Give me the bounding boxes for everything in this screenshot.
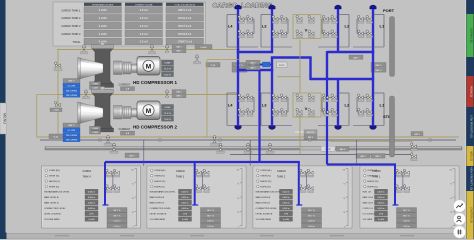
svg-text:CORRECTED LEVEL: CORRECTED LEVEL [150, 208, 172, 210]
manifold cluster L1 [357, 18, 373, 20]
tan line between compressors [58, 94, 240, 96]
svg-text:75: 75 [343, 184, 345, 186]
svg-text:MENU: MENU [3, 113, 7, 124]
STBD bar [390, 96, 395, 157]
aux boxes [90, 82, 101, 86]
svg-text:50: 50 [343, 198, 345, 200]
svg-text:0: 0 [133, 227, 134, 229]
HD compressor 2 group [63, 87, 177, 142]
svg-text:VHOR (%): VHOR (%) [260, 176, 271, 178]
svg-text:98.7 %: 98.7 % [207, 215, 214, 217]
svg-text:HD COMPRESSOR 2: HD COMPRESSOR 2 [133, 124, 178, 129]
vapour boxes center [295, 131, 304, 133]
BAT box below L2 [349, 55, 363, 59]
inter-panel drop lines [143, 140, 145, 166]
pipe cap bottom [269, 126, 275, 130]
svg-text:LEVEL SOURCE: LEVEL SOURCE [44, 214, 61, 216]
svg-text:HHOW (%): HHOW (%) [49, 181, 60, 183]
F-16 box [206, 63, 220, 68]
HD compressor 1 group [63, 42, 177, 97]
BAT pair above panel 4 [356, 154, 370, 159]
svg-text:LOW PRIORITY (0): LOW PRIORITY (0) [469, 115, 473, 138]
svg-text:HOFR (%): HOFR (%) [154, 186, 164, 188]
svg-text:INSTANTANEOUS LEVEL: INSTANTANEOUS LEVEL [44, 191, 70, 194]
svg-text:T/B 5.3PSIG: T/B 5.3PSIG [66, 95, 78, 97]
svg-text:LEVEL SOURCE: LEVEL SOURCE [256, 214, 273, 216]
svg-text:INSTANTANEOUS RATE: INSTANTANEOUS RATE [92, 3, 114, 6]
svg-text:50: 50 [132, 198, 134, 200]
svg-text:0: 0 [451, 227, 452, 229]
svg-text:CARGO: CARGO [277, 170, 286, 173]
svg-text:74.6 %: 74.6 % [164, 74, 171, 76]
svg-text:0.000 m: 0.000 m [88, 203, 96, 205]
riser [372, 9, 374, 53]
manifold cluster L2 [322, 97, 338, 99]
svg-text:BAT 5: BAT 5 [69, 80, 76, 83]
bottom-left navy square [0, 233, 7, 240]
panel level ruler [454, 169, 456, 227]
svg-text:RAW LVL A: RAW LVL A [363, 196, 374, 199]
svg-text:TANK 2: TANK 2 [277, 176, 286, 179]
manifold cluster L4 [238, 18, 254, 20]
svg-text:T-50M: T-50M [92, 128, 98, 130]
blue connector down right [326, 51, 328, 80]
svg-text:BAT 5: BAT 5 [250, 67, 255, 70]
svg-text:MED (2): MED (2) [469, 151, 473, 161]
svg-text:75: 75 [237, 184, 239, 186]
svg-text:L3: L3 [262, 24, 267, 29]
motor [137, 101, 160, 120]
svg-text:0.00 m: 0.00 m [403, 221, 410, 223]
manifold cluster L2 [322, 18, 338, 20]
compressor cone [80, 58, 103, 79]
svg-text:50723.8 m3: 50723.8 m3 [178, 33, 192, 36]
box cluster mid manifold [246, 60, 260, 64]
svg-text:T-50M: T-50M [92, 132, 98, 134]
svg-text:VOLUME RATE: VOLUME RATE [256, 218, 272, 221]
alarm segment [467, 146, 474, 166]
svg-text:OVER (HL): OVER (HL) [260, 170, 271, 172]
pipe cap top [235, 5, 241, 9]
svg-text:50: 50 [450, 198, 452, 200]
svg-text:28672.1 m3: 28672.1 m3 [178, 9, 192, 12]
svg-text:INSTANTANEOUS LEVEL: INSTANTANEOUS LEVEL [150, 191, 176, 194]
svg-text:0 m3/h: 0 m3/h [99, 32, 107, 36]
manifold cluster L4 [238, 97, 254, 99]
tan vertical from F-16 [206, 60, 208, 138]
svg-text:25: 25 [237, 212, 239, 214]
svg-text:RAW LEVEL B: RAW LEVEL B [44, 202, 59, 205]
svg-text:0.00 m: 0.00 m [207, 221, 214, 223]
stbd feeder right [326, 79, 328, 165]
svg-text:TANK 3: TANK 3 [176, 176, 185, 179]
svg-text:BAT 5: BAT 5 [414, 133, 420, 136]
svg-text:T-50M: T-50M [92, 84, 98, 86]
valve on navy line [106, 136, 109, 143]
svg-text:T/B 5.3PSIG: T/B 5.3PSIG [66, 140, 78, 142]
svg-text:OVER (HL): OVER (HL) [49, 170, 60, 172]
cargo tank panel 4 [42, 166, 141, 228]
alarm segment [467, 76, 474, 107]
svg-text:BAT 5: BAT 5 [376, 69, 383, 72]
svg-text:0.000 m: 0.000 m [377, 192, 385, 194]
svg-text:0.000 m: 0.000 m [88, 192, 96, 194]
tan long bottom line [37, 136, 459, 138]
tan link to V drop [277, 76, 300, 78]
svg-text:TOTAL: TOTAL [72, 40, 81, 44]
svg-text:0.000 m: 0.000 m [282, 192, 290, 194]
alarm segment [467, 14, 474, 57]
svg-text:74.6 %: 74.6 % [164, 119, 171, 121]
V cluster [293, 93, 321, 117]
blue short bus mid [255, 64, 273, 66]
svg-text:BAT 5: BAT 5 [340, 148, 346, 151]
svg-text:0.00 m: 0.00 m [403, 226, 410, 228]
valve right drop [410, 143, 416, 148]
svg-text:L3: L3 [262, 103, 267, 108]
svg-text:TANK 1: TANK 1 [372, 176, 381, 179]
svg-text:0.000 m: 0.000 m [282, 203, 290, 205]
blue bus top-right [327, 51, 374, 53]
blue left mid bus [237, 69, 273, 71]
svg-text:0.00 m: 0.00 m [207, 226, 214, 228]
svg-text:0.1 LPM: 0.1 LPM [68, 86, 76, 88]
pipe cap top [335, 5, 341, 9]
S-16 box left [49, 134, 63, 139]
bottom blue bus left [105, 161, 300, 163]
stop box [277, 62, 288, 68]
pipe cap bottom [235, 126, 241, 130]
svg-text:NORMAL (0): NORMAL (0) [469, 28, 473, 43]
manifold cluster L1 [357, 97, 373, 99]
flow box above comp1 [195, 45, 212, 50]
svg-text:RAW LVL B: RAW LVL B [363, 202, 374, 205]
svg-text:75: 75 [450, 184, 452, 186]
svg-text:100: 100 [343, 169, 346, 171]
svg-text:GTS: GTS [89, 214, 94, 216]
panel level ruler [241, 169, 243, 227]
valve on tan line [82, 45, 85, 52]
svg-text:0 m3/h: 0 m3/h [200, 47, 206, 49]
svg-text:BAT 5: BAT 5 [176, 45, 181, 48]
valve on main pipe [268, 143, 271, 150]
svg-text:0 m3/h: 0 m3/h [283, 219, 289, 221]
svg-text:HHOW (%): HHOW (%) [367, 181, 378, 183]
svg-text:HOFR (%): HOFR (%) [49, 186, 59, 188]
svg-text:PORT: PORT [383, 8, 395, 13]
tan stub lower-left [37, 94, 58, 96]
svg-text:CARGO: CARGO [372, 170, 381, 173]
svg-text:BAT 5: BAT 5 [129, 154, 135, 157]
svg-text:CARGO TANK 3: CARGO TANK 3 [61, 24, 81, 28]
svg-text:VHOR (%): VHOR (%) [154, 176, 165, 178]
svg-text:TOTAL VOLUME (M3 H): TOTAL VOLUME (M3 H) [174, 3, 195, 6]
BAT box right [411, 132, 423, 136]
svg-text:BAT 5: BAT 5 [176, 50, 181, 53]
compressor duct [92, 93, 113, 129]
motor [137, 57, 160, 76]
motor value boxes [162, 60, 174, 65]
right alarm strip [466, 0, 474, 239]
valve before boxes comp1 [165, 45, 168, 52]
svg-text:L1: L1 [380, 24, 385, 29]
svg-text:0.0 m3: 0.0 m3 [140, 16, 148, 20]
svg-text:0 m3/h: 0 m3/h [99, 8, 107, 12]
valve on main pipe [112, 143, 115, 150]
svg-text:M: M [146, 63, 151, 70]
svg-text:T/B 5.3PSIG: T/B 5.3PSIG [66, 135, 78, 137]
svg-text:CORRECTED LEVEL: CORRECTED LEVEL [256, 208, 278, 210]
table header [166, 3, 204, 6]
valve on navy line [213, 136, 216, 143]
navy long line [40, 139, 456, 141]
valve on main pipe [246, 143, 249, 150]
svg-text:BAT 5: BAT 5 [376, 64, 383, 67]
svg-text:VHOR (%): VHOR (%) [49, 176, 60, 178]
V cluster [293, 15, 321, 39]
MENU tab [0, 103, 7, 134]
svg-text:25: 25 [343, 212, 345, 214]
compressor duct [92, 49, 113, 85]
shaft assembly [114, 106, 123, 120]
stbd feeder left [258, 70, 260, 163]
blue bus top-left [237, 51, 273, 53]
svg-text:V: V [305, 106, 308, 111]
svg-text:CARGO: CARGO [176, 170, 185, 173]
svg-text:L2: L2 [345, 103, 350, 108]
valve on left vertical lower [54, 101, 60, 106]
left data boxes [63, 123, 80, 127]
svg-text:RAW LEVEL B: RAW LEVEL B [256, 202, 271, 205]
PORT bar [390, 17, 395, 77]
circle button trend [453, 200, 465, 212]
svg-text:0: 0 [344, 227, 345, 229]
BAT box mid-left above panel1 [125, 153, 139, 158]
valve on main pipe [219, 143, 222, 150]
svg-text:BAT 5: BAT 5 [176, 95, 181, 98]
svg-text:0.000 m: 0.000 m [181, 192, 189, 194]
pipe cap bottom [335, 126, 341, 130]
svg-text:75: 75 [132, 184, 134, 186]
manifold cluster L3 [272, 18, 288, 20]
main gray pipe [45, 147, 462, 150]
svg-text:TANK 4: TANK 4 [83, 176, 92, 179]
svg-text:71.4 %: 71.4 % [164, 69, 171, 71]
navy line below gray pipe [230, 154, 412, 156]
svg-text:VOL RATE: VOL RATE [363, 218, 373, 221]
svg-text:50727.9 m3: 50727.9 m3 [178, 25, 192, 28]
riser [337, 9, 339, 53]
pipe cap bottom [370, 126, 376, 130]
valve on tan line [150, 45, 153, 52]
svg-text:25: 25 [132, 212, 134, 214]
small fittings on navy line [99, 139, 101, 141]
bottom status bar [0, 234, 474, 240]
svg-text:BAT 5: BAT 5 [375, 155, 381, 158]
svg-text:98.7 %: 98.7 % [308, 210, 315, 212]
svg-text:0 m3/h: 0 m3/h [99, 24, 107, 28]
blue connector down mid [309, 58, 311, 81]
svg-text:CARGO TANK 4: CARGO TANK 4 [61, 32, 81, 36]
blue right bus [310, 78, 374, 80]
svg-text:CAUTION (3): CAUTION (3) [469, 207, 473, 223]
BAT boxes pair right manifold [371, 63, 386, 68]
svg-text:0.0 m3: 0.0 m3 [140, 24, 148, 28]
table header [84, 3, 122, 6]
svg-text:RAW LEVEL B: RAW LEVEL B [150, 202, 165, 205]
svg-text:L4: L4 [228, 103, 233, 108]
svg-text:CURRENT: CURRENT [119, 128, 131, 131]
small boxes on comp2 tan line [172, 90, 186, 94]
BAT boxes pair left manifold [232, 63, 247, 68]
svg-text:0.000 m: 0.000 m [377, 197, 385, 199]
svg-text:0.000 m: 0.000 m [181, 203, 189, 205]
svg-text:BAT 5: BAT 5 [353, 56, 358, 59]
circle button person [453, 213, 465, 225]
tank riser [104, 162, 106, 205]
svg-text:L1: L1 [380, 103, 385, 108]
svg-text:98.7 %: 98.7 % [308, 215, 315, 217]
small boxes on comp1 tan line [172, 45, 186, 49]
stbd cluster pipes left pair [237, 52, 239, 126]
tank riser [298, 162, 300, 205]
svg-text:GTS: GTS [183, 214, 188, 216]
svg-text:RAW LEVEL A: RAW LEVEL A [150, 196, 165, 199]
svg-text:0.000 m: 0.000 m [181, 197, 189, 199]
svg-text:CARGO: CARGO [83, 170, 92, 173]
table header [125, 3, 163, 6]
svg-text:0.00 m: 0.00 m [114, 226, 121, 228]
cargo tank panel 3 [147, 166, 246, 228]
svg-text:BAT 5: BAT 5 [308, 136, 313, 139]
svg-text:BAT 5: BAT 5 [69, 124, 76, 127]
svg-text:HD COMPRESSOR 1: HD COMPRESSOR 1 [133, 80, 178, 85]
svg-text:0.000 m: 0.000 m [181, 208, 189, 210]
svg-text:T-50M: T-50M [53, 110, 59, 112]
svg-text:GTS: GTS [379, 214, 384, 216]
circle button grid [453, 226, 465, 238]
svg-text:0.000 m: 0.000 m [377, 203, 385, 205]
svg-text:0 MW: 0 MW [165, 107, 172, 109]
svg-text:GTS: GTS [284, 214, 289, 216]
svg-text:M: M [146, 108, 151, 115]
panel level ruler [136, 169, 138, 227]
shaft assembly [114, 61, 123, 75]
svg-text:BAT 5: BAT 5 [250, 62, 255, 65]
svg-text:0.0 m3: 0.0 m3 [140, 8, 148, 12]
svg-text:98.7 %: 98.7 % [403, 210, 410, 212]
svg-text:0 MW: 0 MW [165, 63, 172, 65]
svg-text:179847.2 m3: 179847.2 m3 [177, 41, 192, 44]
svg-text:LVL SOURCE: LVL SOURCE [363, 214, 376, 216]
svg-text:50: 50 [237, 198, 239, 200]
svg-text:HHOW (%): HHOW (%) [260, 181, 271, 183]
svg-text:0.0 m3: 0.0 m3 [140, 40, 148, 44]
left data boxes [63, 79, 80, 83]
svg-text:0 A: 0 A [126, 88, 130, 91]
tank riser [394, 165, 396, 206]
blue bus top-left 2 [271, 56, 312, 58]
riser [237, 9, 239, 53]
svg-text:CORRECTED LEVEL: CORRECTED LEVEL [44, 208, 66, 210]
svg-text:0.0 m3: 0.0 m3 [140, 32, 148, 36]
svg-text:OVER (HL): OVER (HL) [154, 170, 165, 172]
svg-text:HIGH PRIORITY (0): HIGH PRIORITY (0) [469, 167, 473, 190]
aux boxes [90, 126, 101, 130]
tan recirculation line above compressor 1 [57, 49, 240, 51]
svg-text:STOP: STOP [279, 65, 285, 67]
svg-text:100: 100 [450, 169, 453, 171]
svg-text:0.00 m: 0.00 m [114, 221, 121, 223]
cargo tank panel 2 [253, 166, 352, 228]
compressor cone [80, 103, 103, 124]
svg-text:HOFR (%): HOFR (%) [260, 186, 270, 188]
svg-text:0 m3/h: 0 m3/h [378, 219, 384, 221]
svg-text:25: 25 [450, 212, 452, 214]
svg-text:CURRENT: CURRENT [119, 83, 131, 86]
svg-text:T/B 5.3PSIG: T/B 5.3PSIG [66, 90, 78, 92]
svg-text:98.7 %: 98.7 % [114, 210, 121, 212]
svg-text:71.4 %: 71.4 % [164, 113, 171, 115]
svg-text:98.7 %: 98.7 % [114, 215, 121, 217]
svg-text:CARGO LOADING: CARGO LOADING [213, 2, 273, 9]
motor value boxes [162, 105, 174, 110]
svg-text:HIGH (1): HIGH (1) [469, 86, 473, 97]
bottom bar tick dashes [55, 235, 69, 237]
svg-text:0: 0 [238, 227, 239, 229]
svg-text:BAT 5: BAT 5 [360, 155, 366, 158]
svg-text:RAW LEVEL A: RAW LEVEL A [256, 196, 271, 199]
svg-text:VOLUME RATE: VOLUME RATE [150, 218, 166, 221]
svg-text:L4: L4 [228, 24, 233, 29]
svg-text:HOFR (%): HOFR (%) [367, 186, 377, 188]
svg-text:50722.4 m3: 50722.4 m3 [178, 17, 192, 20]
svg-text:0.000 m: 0.000 m [88, 197, 96, 199]
tank riser [194, 162, 196, 205]
riser [271, 9, 273, 53]
svg-text:0 m3/h: 0 m3/h [99, 16, 107, 20]
bottom blue bus right [327, 163, 396, 165]
valve on left vertical upper [54, 62, 60, 67]
svg-text:0.000 m: 0.000 m [377, 208, 385, 210]
cargo tank totals table [53, 2, 206, 46]
valve on tan line [195, 55, 198, 62]
svg-text:CURRENT VOLUME: CURRENT VOLUME [135, 4, 153, 6]
svg-text:0 m3/h: 0 m3/h [88, 219, 94, 221]
alarm segment [467, 191, 474, 239]
svg-text:100: 100 [131, 169, 134, 171]
svg-text:98.7 %: 98.7 % [207, 210, 214, 212]
svg-text:98.7 %: 98.7 % [403, 215, 410, 217]
svg-text:100: 100 [237, 169, 240, 171]
svg-text:0.000 m: 0.000 m [282, 208, 290, 210]
cargo tank panel 1 [360, 166, 459, 228]
svg-text:V: V [305, 28, 308, 33]
svg-text:0 A: 0 A [126, 132, 130, 135]
valve on tan line [84, 90, 87, 97]
svg-text:INSTANTANEOUS LEVEL: INSTANTANEOUS LEVEL [256, 191, 282, 194]
svg-text:0.1 LPM: 0.1 LPM [68, 130, 76, 132]
tan vertical left loop [57, 50, 59, 138]
svg-text:0 m3/h: 0 m3/h [182, 219, 188, 221]
svg-text:INST. LVL: INST. LVL [363, 192, 373, 194]
left navy menu strip [0, 0, 6, 239]
svg-text:0.000 m: 0.000 m [282, 197, 290, 199]
valve right drop [410, 153, 416, 158]
pipe cap top [269, 5, 275, 9]
svg-text:F-16: F-16 [211, 65, 216, 67]
svg-text:RAW LEVEL A: RAW LEVEL A [44, 196, 59, 199]
